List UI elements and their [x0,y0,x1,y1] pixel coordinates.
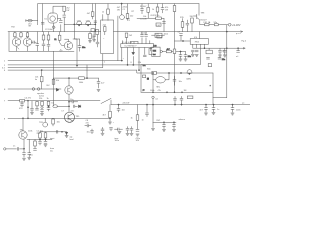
capacitor C57 [218,58,221,59]
capacitor C44 input [17,147,18,150]
wire C58 stub [110,129,112,131]
wire vertical x46.6 [42,4,44,32]
diode D8 output [65,132,67,134]
wire V5 main vertical [174,4,176,93]
wire B1 top pins [103,14,108,20]
capacitor C49 [44,142,47,144]
resistor R35 [147,7,150,12]
wire TR1 top [22,118,24,131]
wire R3 stub [92,4,94,19]
wire stack x102.5 [102,127,104,133]
node dot TR5 [68,77,69,78]
wire R31 stub [34,140,36,149]
wire C10 column [98,78,100,88]
wire C36 row [115,128,123,130]
capacitor C32 [73,105,74,108]
wire C5 link [31,41,36,43]
wire R6 stub [27,32,29,39]
resistor R5 [20,33,22,37]
connector circle [41,106,43,108]
svg-text:100k: 100k [150,90,154,92]
resistor R19 [173,6,176,12]
svg-text:10k: 10k [56,80,59,82]
wire bus2 drop [140,65,142,92]
switch S1 lever [101,98,111,103]
wire R38 stubs [104,26,106,36]
wire C38 stub [181,96,183,104]
capacitor C55 [184,55,187,56]
wire S1 post [110,100,112,105]
wire input row [6,148,24,150]
wire C48 tail [39,143,41,145]
box IC4 regulator [190,39,208,45]
wire R21 column [182,19,184,32]
svg-text:10u: 10u [222,51,225,53]
wire TR2 emitter down [17,46,28,51]
ground x127.5 [126,133,129,135]
wire rail A right [114,31,243,33]
wire B1 bottom pin [102,54,104,68]
wire rail y73 right drop [212,73,214,105]
wire R27 stub [52,118,54,126]
node dot top rail [121,3,122,4]
node dot rail A cross [226,31,227,32]
svg-text:22n: 22n [222,59,225,61]
wire bus 4 [8,69,137,71]
wire rail E [8,88,61,90]
wire line4 [8,117,110,119]
node dot R32 [39,139,40,140]
wire IC2 top pins [123,37,150,43]
svg-text:1k: 1k [92,38,94,40]
capacitor C16 [163,22,166,24]
svg-text:4 5 6 9 10 14: 4 5 6 9 10 14 [122,42,132,44]
wire D6 row [57,105,69,107]
tube V1 inner circle [50,16,55,21]
svg-text:1k: 1k [152,9,154,11]
wire C37 stub [174,96,176,104]
wire C25 column [174,76,176,85]
terminal input [4,148,6,150]
wire x153 tail [152,122,154,127]
wire R7 column [43,32,45,52]
wire D8 stub [66,132,68,135]
LED D6 oval [53,105,58,108]
svg-text:C5 10n: C5 10n [140,18,146,20]
svg-text:22k: 22k [156,33,159,35]
svg-text:mic: mic [50,150,53,152]
node dot TR1 top [22,118,23,119]
capacitor C5 [33,41,35,44]
capacitor C37 above rail D [174,98,177,100]
transistor TR1 [19,131,27,139]
capacitor C24 [237,51,240,53]
diode dome D5 [187,70,192,75]
wire R10 column [41,70,43,89]
ground R25 [40,113,43,115]
resistor R28 [109,111,112,117]
capacitor C28 [36,108,39,110]
ground C20 [195,54,198,56]
resistor R25 [41,101,44,105]
box small component [143,75,146,78]
fuse F3 on y73 [152,71,156,74]
capacitor C56 [207,58,210,59]
node dot C31 [68,101,69,102]
wire tube right [58,19,61,32]
wire TR5 bottom [68,94,70,112]
wire x164 drop [163,18,165,31]
ground D8 [65,136,68,138]
resistor R29 [136,115,139,121]
wire C42 column [213,105,215,112]
capacitor C59 [141,9,144,10]
wire oscillator input [26,20,38,22]
svg-text:10u: 10u [87,132,90,134]
wire C18 stub [180,36,182,41]
wire C40 tail [173,122,175,128]
wire resistor R2 down [63,11,65,31]
capacitor C35 [146,113,149,115]
svg-text:a.f.: a.f. [242,102,245,104]
capacitor C13 [145,35,148,37]
node circle IC3 out [160,50,162,52]
node dot out b [180,51,181,52]
node dot C24 [237,48,238,49]
wire R35 stubs [147,4,149,19]
wire IC2 bottom pins [122,48,151,71]
ground C22 [218,55,221,57]
wire line3 [8,100,100,102]
wire vertical x95.3 [94,4,96,32]
capacitor C12 [141,35,144,37]
wire R22 column [191,23,193,32]
wire TR7 leads [153,73,169,80]
resistor R26 [47,101,50,105]
svg-text:10n: 10n [179,81,182,83]
capacitor C3 [59,20,62,22]
svg-text:input: input [50,137,55,140]
wire x153 vertical [152,73,154,122]
capacitor C11 [96,42,99,44]
wire R32 column [39,132,41,141]
wire x147 drop [146,105,148,113]
wire C45 tail [23,155,25,158]
transistor TR7 oval [156,77,166,83]
wire C31 row [69,101,78,103]
ground C46 [28,158,31,160]
resistor R24 [36,102,39,106]
capacitor C14 [143,55,146,56]
wire R33 column [45,132,47,141]
wire bus4 drop [137,70,141,73]
node dot RV1 b [173,122,174,123]
wire IC4 feed [198,32,200,39]
wire mid rail y73 [141,72,213,74]
resistor R39 [156,7,159,12]
ground C36 [118,131,121,133]
wire right rail [226,25,228,98]
wire C23 stub [224,48,226,55]
wire C15 stub [162,4,164,13]
resistor R20 [173,49,176,54]
capacitor C54 [179,55,182,56]
svg-text:22k: 22k [138,62,141,64]
node dot y48.2 [204,48,205,49]
wire C9 column [73,39,80,51]
wire bus 2 [8,64,141,66]
svg-text:10n: 10n [70,99,73,101]
wire C51 stub [91,129,93,134]
svg-text:10n: 10n [122,110,125,112]
wire connector y97.6 [213,97,227,99]
wire left frame vertical [8,32,10,52]
wire C24 stub [237,48,239,50]
wire tube top pin [53,6,64,13]
resistor R4 [14,33,16,37]
ground C10 [97,90,100,92]
capacitor stack x127.5 [126,128,129,130]
wire left vertical x53.5 [53,23,55,84]
svg-text:1W: 1W [165,10,168,12]
wire TR9 top [121,4,123,15]
node dot D6 [68,106,69,107]
resistor R27 [52,119,55,124]
wire R12 down [53,84,55,106]
svg-text:47n: 47n [19,108,22,110]
svg-text:1n: 1n [142,120,144,122]
capacitor C8 [47,45,50,47]
wire TR3b stub [44,118,46,122]
wire R26 column [48,101,50,111]
LED D1 [52,26,55,29]
tube V1 envelope [48,13,58,23]
wire vertical x37.3 [36,32,38,52]
capacitor C29 [41,110,44,112]
svg-text:R12 1k: R12 1k [153,15,159,17]
svg-text:n.c.: n.c. [143,65,147,67]
svg-text:MIC: MIC [157,87,161,89]
wire TR1 bottom [23,139,25,152]
node dot out a [174,51,175,52]
node dot railC b [174,92,175,93]
capacitor C41 [205,108,208,110]
node dot C42 [213,104,214,105]
capacitor C51 [91,130,94,132]
wire R5 stub [20,32,22,39]
capacitor C30 [47,108,50,110]
capacitor C50 [56,130,58,133]
transducer CR2 [86,21,91,26]
wire rail D [111,104,250,106]
capacitor C15 [161,8,164,10]
ground C42 [212,113,215,115]
box B3 [156,23,161,26]
svg-text:10k: 10k [57,122,60,124]
ground x131.5 [130,133,133,135]
node dot line4 x28 [27,118,28,119]
capacitor C48 [39,142,42,144]
wire main vertical V3 upper [74,4,77,66]
resistor R18 [156,17,162,20]
wire x137.5 drop [137,105,139,129]
resistor R22 [191,18,194,23]
capacitor C38 [180,98,183,100]
svg-text:C2 100n: C2 100n [45,29,53,31]
wire C54 column [180,52,182,59]
wire R25 column [41,101,43,113]
capacitor C43 [231,108,234,110]
capacitor C4 ticks [94,21,97,23]
resistor R38 inside B1 [104,27,106,32]
wire output y48.2 [227,47,245,49]
resistor R10 [40,76,43,81]
svg-text:R9 4k7: R9 4k7 [140,6,147,8]
node dot rail y48.2 [226,48,227,49]
node dot rail D x153 [152,104,153,105]
ground C54 [179,59,182,61]
resistor R21 [181,22,184,28]
node dot R10 top [41,69,42,70]
wire x87 drop [86,65,88,78]
wire TR5 top [68,78,70,86]
svg-text:1k: 1k [131,118,133,120]
resistor R36 [89,33,92,38]
junction block [147,78,149,80]
svg-text:FS1 1A: FS1 1A [204,21,211,24]
resistor R17 [157,35,162,38]
node dot C43 [232,104,233,105]
node dot pin3 [127,64,128,65]
wire R8 column [48,32,50,52]
resistor R11 [79,77,85,80]
svg-text:22k: 22k [103,24,106,26]
resistor R12 [52,79,55,84]
node dot pin1 [121,60,122,61]
svg-text:IC2 SN76477: IC2 SN76477 [125,46,138,48]
wire C41 column [205,105,207,113]
capacitor C40 [173,125,176,127]
wire 9V rail [200,24,228,26]
wire bus2 right extension [141,63,201,65]
capacitor C10 [97,82,100,84]
node dot w2 [61,131,62,132]
IC2 body [121,44,154,48]
box IC3 [152,47,160,56]
capacitor stack x131.5 [130,128,133,130]
transistor TR3 [23,38,31,46]
resistor R14 [107,9,110,14]
svg-text:10n: 10n [82,47,85,49]
svg-text:100k: 100k [79,82,83,84]
wire C19 tail [192,52,194,54]
transistor TR9 small [120,15,125,20]
box D4 [206,50,212,54]
emitter resistor marks [59,49,62,51]
transistor TR2 [12,38,20,46]
svg-text:47k: 47k [158,90,161,92]
wire C27 stub [31,101,33,112]
wire RV1 row [153,121,176,123]
resistor R13 [96,29,99,34]
svg-text:4ohm: 4ohm [39,95,44,97]
wire C53 stubs [93,32,95,40]
node dot x28 b [27,107,28,108]
diode D3 [132,52,135,54]
crystal X1 oval [28,19,32,22]
wire R9 column [59,32,61,43]
capacitor C53 [93,35,96,36]
svg-text:+9-18V: +9-18V [232,23,241,27]
capacitor C17 [186,23,189,25]
svg-text:100n: 100n [236,109,240,111]
ground C49 [44,145,47,147]
svg-text:1k: 1k [47,98,49,100]
capacitor C45 [23,153,26,155]
capacitor C27 [31,108,34,110]
wire R39 stubs [157,4,159,19]
svg-text:22k: 22k [39,98,42,100]
varicap D7 [79,105,81,108]
wire C46 column [28,140,30,158]
ground C34 [136,134,139,136]
capacitor stack x102.5 [101,129,104,131]
wire C52 row [85,125,91,127]
svg-text:a.f.: a.f. [236,56,239,58]
wire C32 link [75,105,78,107]
svg-text:1k: 1k [54,39,56,41]
node arrow under TR2 [18,48,19,50]
wire vertical from top rail left end [37,4,39,25]
node dot railC c [181,92,182,93]
transistor TR6 [64,112,74,122]
node dot R33 [45,139,46,140]
svg-text:1M: 1M [184,90,187,92]
capacitor C6 [36,44,39,46]
ground C45 [22,158,25,160]
capacitor C18 [180,34,183,36]
capacitor C23 [223,50,226,52]
wire rail C y92.3 [141,91,213,93]
resistor R15 [126,14,129,19]
resistor R16 [125,33,128,37]
capacitor C58 [110,128,113,129]
wire C12 C13 tops [142,32,146,35]
box B2 [155,33,162,37]
node dot line4 end [109,118,110,119]
svg-text:1n 4n7: 1n 4n7 [141,33,148,35]
svg-text:22n: 22n [71,110,74,112]
box B1 oscillator module [101,20,114,54]
wire x117.9 vertical [117,16,119,61]
svg-text:1k: 1k [102,11,104,13]
node dot C37 [174,104,175,105]
wire y78 row [54,77,99,79]
wire R28 column [109,105,111,122]
wire R4 stubs [14,32,16,38]
node dot y73 a [168,72,169,73]
node dot R26 [48,106,49,107]
resistor R7 [42,35,45,40]
svg-text:1W: 1W [66,10,69,12]
wire IC2 pin link [130,41,138,43]
ground C40 [172,130,175,132]
node dot x153 y73 [152,72,153,73]
small box component [91,29,95,32]
wire bus 3 [8,67,103,69]
ground x102.5 [101,133,104,135]
resistor R8 [47,35,50,40]
